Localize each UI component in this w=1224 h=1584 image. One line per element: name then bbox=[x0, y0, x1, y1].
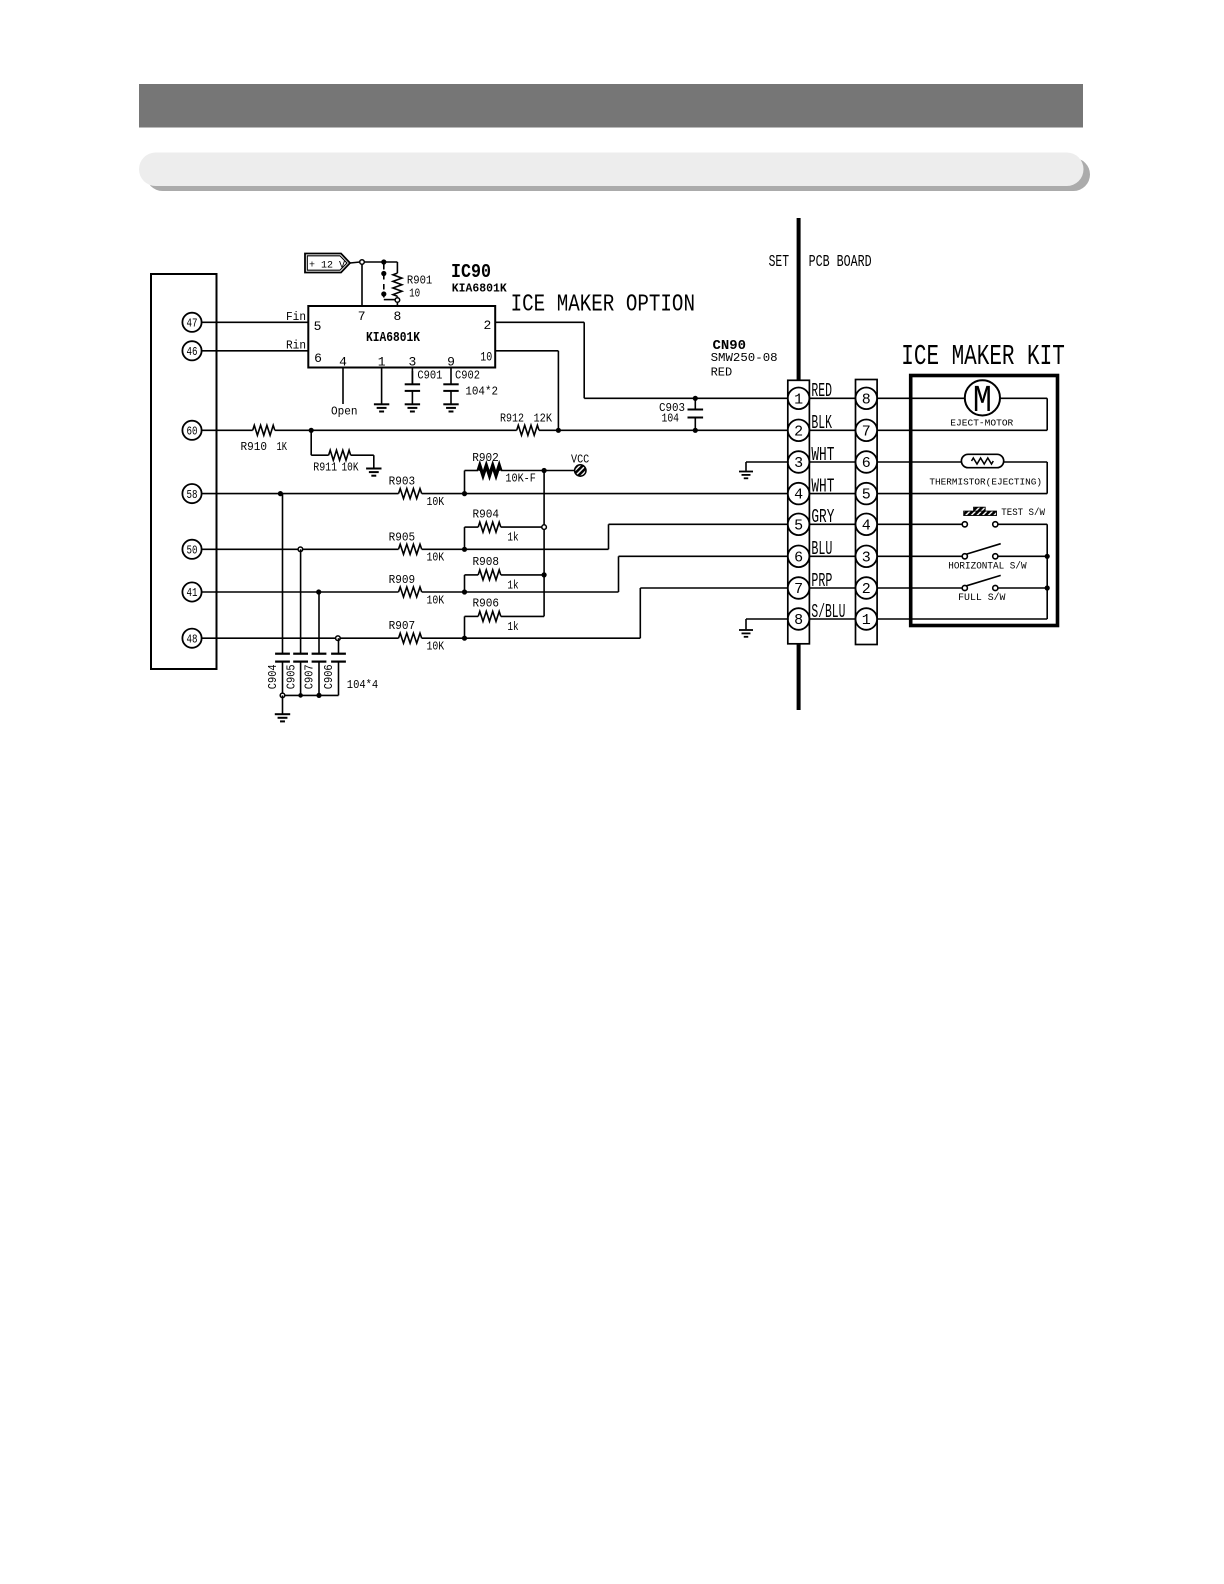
svg-text:THERMISTOR(EJECTING): THERMISTOR(EJECTING) bbox=[929, 476, 1042, 487]
svg-text:R905: R905 bbox=[389, 530, 416, 544]
svg-text:C905: C905 bbox=[284, 664, 298, 689]
svg-text:4: 4 bbox=[339, 355, 347, 370]
svg-text:6: 6 bbox=[862, 455, 871, 472]
svg-text:R904: R904 bbox=[473, 507, 500, 521]
svg-text:58: 58 bbox=[187, 489, 198, 502]
svg-text:C901: C901 bbox=[417, 368, 442, 382]
svg-text:46: 46 bbox=[187, 346, 198, 359]
svg-text:EJECT-MOTOR: EJECT-MOTOR bbox=[950, 417, 1013, 428]
svg-text:104: 104 bbox=[662, 412, 680, 426]
svg-text:C904: C904 bbox=[266, 664, 280, 689]
svg-text:BLU: BLU bbox=[811, 538, 832, 560]
svg-text:VCC: VCC bbox=[571, 453, 589, 467]
svg-text:41: 41 bbox=[187, 587, 198, 600]
svg-text:6: 6 bbox=[794, 549, 803, 566]
svg-text:R907: R907 bbox=[389, 619, 416, 633]
svg-text:SMW250-08: SMW250-08 bbox=[711, 351, 778, 365]
svg-text:10: 10 bbox=[409, 287, 420, 301]
svg-text:FULL S/W: FULL S/W bbox=[958, 592, 1005, 604]
svg-text:104*2: 104*2 bbox=[465, 385, 498, 399]
svg-text:2: 2 bbox=[483, 318, 491, 333]
svg-text:R906: R906 bbox=[473, 597, 500, 611]
svg-text:3: 3 bbox=[794, 455, 803, 472]
svg-text:7: 7 bbox=[862, 423, 871, 440]
svg-text:WHT: WHT bbox=[811, 444, 834, 466]
svg-text:RED: RED bbox=[811, 380, 832, 402]
svg-text:104*4: 104*4 bbox=[347, 678, 378, 692]
svg-text:R901: R901 bbox=[407, 274, 432, 288]
svg-text:50: 50 bbox=[187, 545, 198, 558]
svg-text:Open: Open bbox=[331, 405, 358, 419]
svg-text:5: 5 bbox=[314, 319, 322, 334]
svg-text:60: 60 bbox=[187, 426, 198, 439]
svg-text:7: 7 bbox=[794, 581, 803, 598]
svg-text:BLK: BLK bbox=[811, 412, 832, 434]
svg-text:TEST S/W: TEST S/W bbox=[1001, 507, 1045, 519]
svg-text:4: 4 bbox=[862, 517, 871, 534]
svg-text:1k: 1k bbox=[507, 620, 518, 634]
svg-text:R910: R910 bbox=[241, 440, 268, 454]
svg-text:5: 5 bbox=[862, 487, 871, 504]
svg-text:R912: R912 bbox=[500, 412, 524, 426]
svg-text:8: 8 bbox=[393, 309, 401, 324]
svg-text:8: 8 bbox=[794, 612, 803, 629]
svg-text:R908: R908 bbox=[473, 555, 500, 569]
svg-text:RED: RED bbox=[711, 366, 733, 380]
svg-text:1k: 1k bbox=[507, 531, 518, 545]
svg-text:KIA6801K: KIA6801K bbox=[452, 283, 507, 296]
svg-text:PCB BOARD: PCB BOARD bbox=[809, 253, 872, 272]
svg-text:ICE MAKER OPTION: ICE MAKER OPTION bbox=[511, 292, 695, 319]
svg-text:PRP: PRP bbox=[811, 570, 832, 592]
svg-text:+ 12 V: + 12 V bbox=[309, 259, 346, 271]
svg-text:4: 4 bbox=[794, 487, 803, 504]
svg-text:C907: C907 bbox=[302, 664, 316, 689]
svg-text:R909: R909 bbox=[389, 573, 416, 587]
svg-text:3: 3 bbox=[408, 355, 416, 370]
svg-text:8: 8 bbox=[862, 391, 871, 408]
svg-text:GRY: GRY bbox=[811, 506, 834, 528]
svg-text:10K: 10K bbox=[427, 593, 445, 607]
svg-text:C902: C902 bbox=[455, 368, 480, 382]
svg-text:IC90: IC90 bbox=[451, 261, 491, 283]
svg-text:1: 1 bbox=[794, 391, 803, 408]
svg-text:5: 5 bbox=[794, 517, 803, 534]
svg-text:10K: 10K bbox=[427, 640, 445, 654]
svg-text:S/BLU: S/BLU bbox=[811, 601, 845, 623]
svg-text:48: 48 bbox=[187, 633, 198, 646]
svg-text:7: 7 bbox=[358, 309, 366, 324]
svg-text:1K: 1K bbox=[277, 440, 288, 454]
svg-text:47: 47 bbox=[187, 318, 198, 331]
svg-text:SET: SET bbox=[769, 253, 790, 272]
svg-text:12K: 12K bbox=[534, 412, 553, 426]
svg-text:10K-F: 10K-F bbox=[505, 472, 536, 486]
svg-text:R911: R911 bbox=[313, 461, 337, 475]
svg-text:2: 2 bbox=[794, 423, 803, 440]
svg-text:10K: 10K bbox=[427, 495, 445, 509]
svg-text:R903: R903 bbox=[389, 475, 416, 489]
svg-text:1: 1 bbox=[378, 355, 386, 370]
svg-text:HORIZONTAL S/W: HORIZONTAL S/W bbox=[948, 560, 1026, 572]
svg-text:10K: 10K bbox=[342, 461, 360, 475]
svg-text:2: 2 bbox=[862, 581, 871, 598]
svg-text:10: 10 bbox=[480, 350, 492, 365]
svg-text:1k: 1k bbox=[507, 578, 518, 592]
svg-text:R902: R902 bbox=[472, 451, 499, 465]
svg-text:10K: 10K bbox=[427, 551, 445, 565]
svg-text:1: 1 bbox=[862, 612, 871, 629]
svg-text:WHT: WHT bbox=[811, 475, 834, 497]
svg-text:C906: C906 bbox=[322, 664, 336, 689]
svg-text:9: 9 bbox=[447, 355, 455, 370]
svg-text:ICE MAKER KIT: ICE MAKER KIT bbox=[901, 340, 1065, 373]
svg-text:KIA6801K: KIA6801K bbox=[366, 330, 420, 346]
svg-text:3: 3 bbox=[862, 549, 871, 566]
svg-text:6: 6 bbox=[314, 351, 322, 366]
